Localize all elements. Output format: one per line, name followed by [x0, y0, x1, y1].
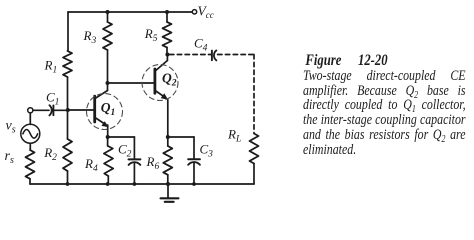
svg-text:Vcc: Vcc [198, 4, 214, 21]
svg-text:rs: rs [5, 149, 14, 166]
svg-text:C2: C2 [118, 142, 132, 160]
svg-text:R4: R4 [84, 156, 98, 174]
svg-text:Q1: Q1 [101, 100, 116, 118]
svg-text:R2: R2 [43, 145, 57, 163]
svg-text:C3: C3 [200, 142, 214, 160]
svg-text:Q2: Q2 [162, 71, 177, 89]
svg-text:R5: R5 [144, 26, 158, 44]
svg-text:R6: R6 [146, 154, 160, 172]
svg-text:RL: RL [227, 127, 241, 145]
svg-text:vs: vs [6, 119, 16, 136]
svg-text:C4: C4 [194, 36, 208, 54]
svg-text:R1: R1 [44, 58, 58, 76]
svg-text:R3: R3 [83, 28, 97, 46]
